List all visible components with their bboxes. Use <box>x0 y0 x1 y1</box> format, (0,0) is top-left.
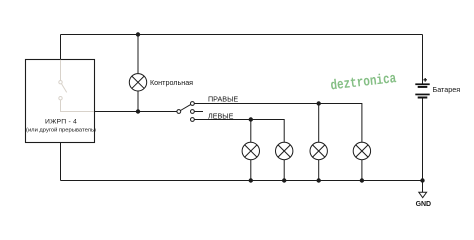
wire lamp2 to rail <box>283 160 285 181</box>
wire box right to switch pole <box>95 111 177 113</box>
svg-text:GND: GND <box>416 201 431 208</box>
wire top rail <box>61 34 423 36</box>
junction dot mid wire <box>136 109 140 113</box>
wire left drop to box top <box>60 35 62 60</box>
junction dot rail lamp3 <box>317 178 321 182</box>
junction dot PRAVYE <box>317 101 321 105</box>
ground <box>419 192 427 197</box>
wire control lamp drop <box>137 35 139 74</box>
relay box IZhRP-4 <box>26 60 95 143</box>
junction dot LEVYE <box>249 117 253 121</box>
wire box bottom to bottom rail <box>60 143 62 181</box>
wire lamp1 to rail <box>250 160 252 181</box>
svg-text:Батарея: Батарея <box>433 85 461 94</box>
junction dot rail lamp2 <box>282 178 286 182</box>
wire control lamp to mid wire <box>137 91 139 112</box>
svg-text:ПРАВЫЕ: ПРАВЫЕ <box>208 95 238 104</box>
junction dot rail lamp1 <box>249 178 253 182</box>
junction dot rail lamp4 <box>360 178 364 182</box>
wire PRAVYE branch lamp3 <box>318 104 320 143</box>
lamp left2 <box>276 142 293 159</box>
wire lamp4 to rail <box>361 160 363 181</box>
battery plus sign <box>423 78 427 82</box>
wire GND lead <box>422 181 424 193</box>
wire PRAVYE net <box>194 104 362 143</box>
wire LEVYE branch lamp1 <box>250 120 252 143</box>
svg-text:(или другой прерыватель): (или другой прерыватель) <box>26 127 96 134</box>
lamp right1 <box>310 142 327 159</box>
lamp control (Kontrolnaya) <box>129 74 146 91</box>
wire bottom rail <box>61 180 423 182</box>
lamp left1 <box>242 142 259 159</box>
wire lamp3 to rail <box>318 160 320 181</box>
battery GB1 <box>415 83 429 98</box>
svg-text:Контрольная: Контрольная <box>150 78 193 87</box>
lamp right2 <box>353 142 370 159</box>
wire battery top lead <box>422 35 424 84</box>
junction dot top rail <box>136 32 140 36</box>
relay internal contact (grey) <box>59 60 94 112</box>
wire LEVYE net <box>194 120 284 143</box>
svg-text:ИЖРП - 4: ИЖРП - 4 <box>45 119 77 126</box>
svg-text:ЛЕВЫЕ: ЛЕВЫЕ <box>208 111 234 120</box>
switch SA1 three-position <box>177 102 203 122</box>
junction dot rail GND <box>420 178 424 182</box>
wire battery bottom lead <box>422 98 424 180</box>
